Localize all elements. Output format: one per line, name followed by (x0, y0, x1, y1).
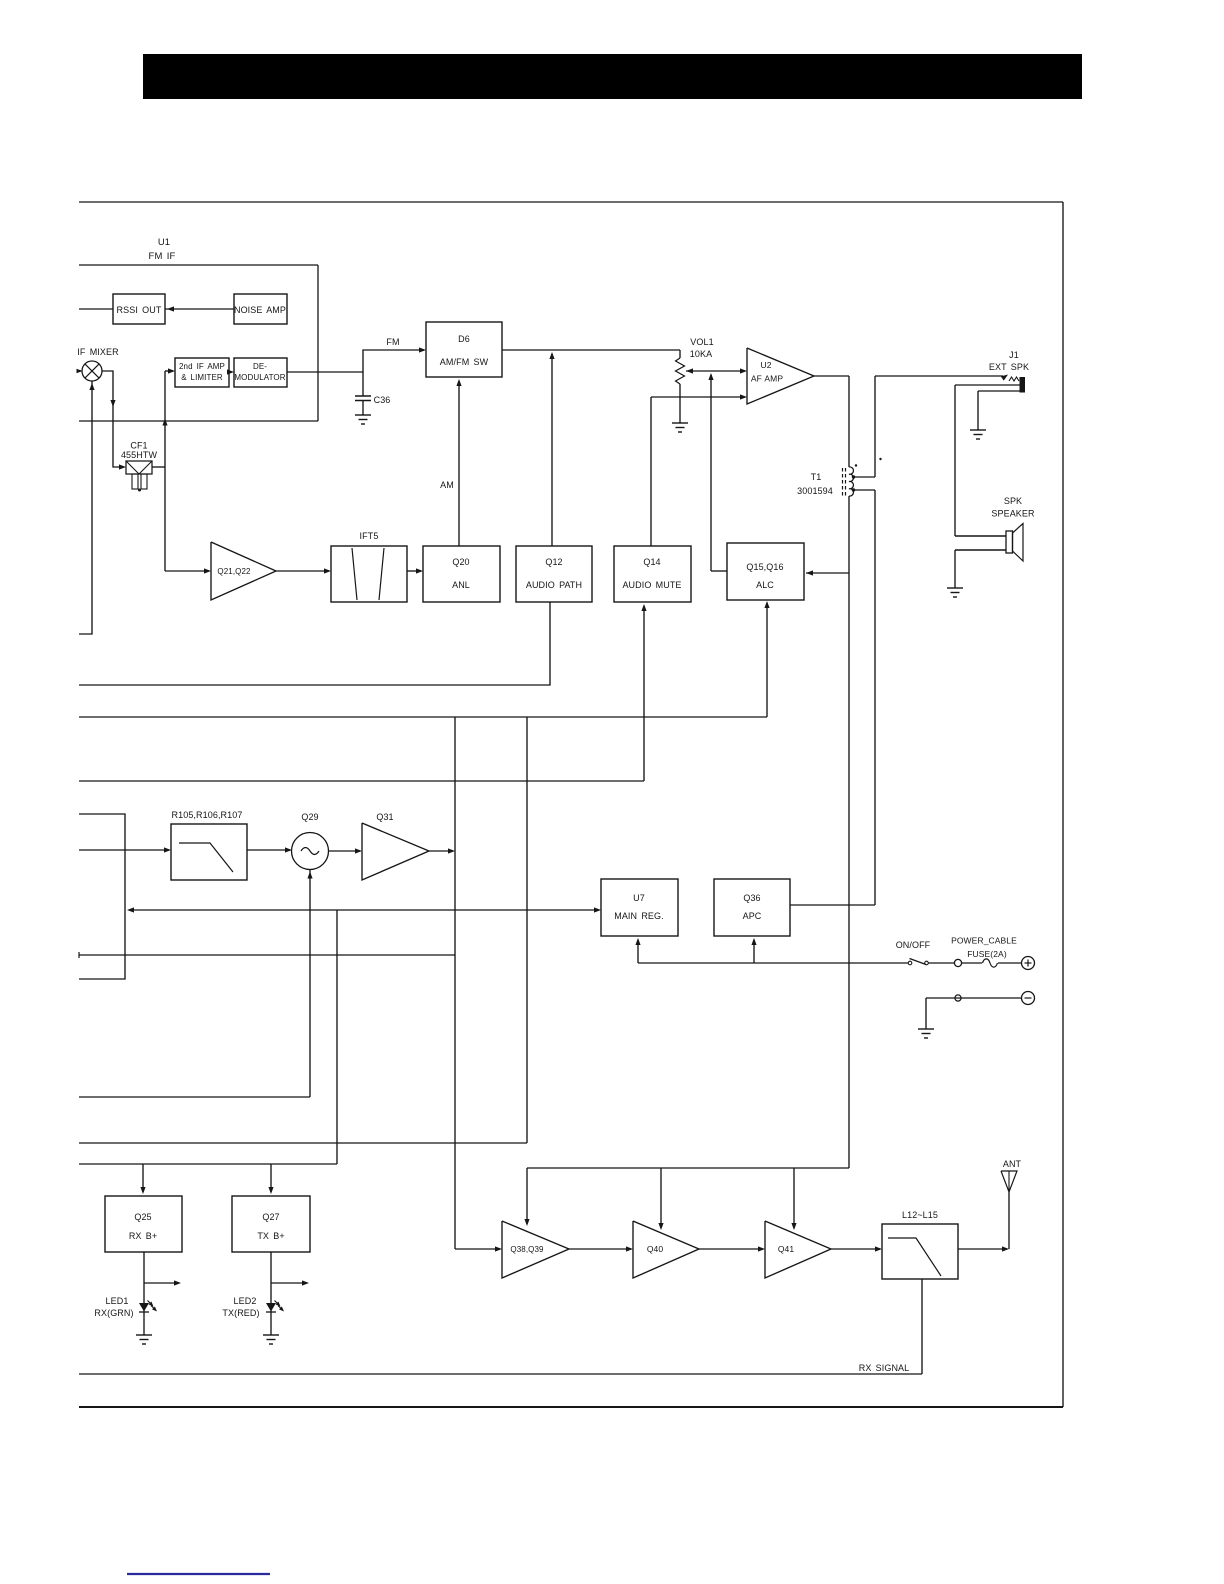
svg-text:U1: U1 (158, 237, 170, 248)
svg-text:SPEAKER: SPEAKER (991, 509, 1035, 519)
svg-text:U7: U7 (633, 893, 645, 903)
svg-text:Q31: Q31 (376, 812, 393, 822)
svg-text:AM/FM SW: AM/FM SW (440, 357, 489, 367)
svg-text:Q38,Q39: Q38,Q39 (510, 1245, 544, 1254)
svg-text:AM: AM (440, 480, 454, 490)
svg-text:RX SIGNAL: RX SIGNAL (859, 1363, 910, 1373)
svg-text:DE-: DE- (253, 362, 267, 371)
svg-text:Q36: Q36 (743, 893, 760, 903)
svg-text:RX(GRN): RX(GRN) (94, 1308, 133, 1318)
svg-text:Q12: Q12 (545, 557, 562, 567)
svg-text:FM IF: FM IF (149, 251, 176, 262)
svg-text:FUSE(2A): FUSE(2A) (967, 949, 1007, 959)
svg-text:455HTW: 455HTW (121, 450, 158, 460)
svg-text:MAIN REG.: MAIN REG. (614, 911, 664, 921)
svg-text:ANL: ANL (452, 580, 470, 590)
svg-text:Q27: Q27 (262, 1212, 279, 1222)
svg-text:ANT: ANT (1003, 1159, 1022, 1169)
svg-text:Q40: Q40 (647, 1244, 664, 1254)
svg-text:Q41: Q41 (778, 1244, 795, 1254)
svg-text:L12~L15: L12~L15 (902, 1210, 938, 1220)
svg-text:10KA: 10KA (690, 349, 712, 359)
svg-text:AUDIO PATH: AUDIO PATH (526, 580, 582, 590)
svg-text:RX B+: RX B+ (129, 1231, 157, 1241)
svg-text:TX(RED): TX(RED) (222, 1308, 259, 1318)
svg-text:Q15,Q16: Q15,Q16 (746, 562, 783, 572)
svg-text:TX B+: TX B+ (257, 1231, 284, 1241)
svg-text:RSSI OUT: RSSI OUT (117, 305, 162, 315)
svg-text:NOISE AMP: NOISE AMP (234, 305, 286, 315)
svg-text:D6: D6 (458, 334, 470, 344)
svg-text:VOL1: VOL1 (690, 337, 713, 347)
svg-text:Q25: Q25 (134, 1212, 151, 1222)
svg-text:3001594: 3001594 (797, 486, 833, 496)
svg-text:ON/OFF: ON/OFF (896, 940, 931, 950)
svg-text:J1: J1 (1009, 350, 1019, 360)
svg-text:Q29: Q29 (301, 812, 318, 822)
svg-text:C36: C36 (374, 395, 391, 405)
svg-text:LED1: LED1 (106, 1296, 129, 1306)
svg-text:IFT5: IFT5 (360, 531, 379, 541)
svg-text:Q21,Q22: Q21,Q22 (217, 567, 251, 576)
svg-text:AUDIO MUTE: AUDIO MUTE (622, 580, 681, 590)
svg-text:FM: FM (386, 337, 399, 347)
svg-text:MODULATOR: MODULATOR (234, 373, 285, 382)
svg-text:APC: APC (743, 911, 762, 921)
svg-text:EXT SPK: EXT SPK (989, 362, 1029, 372)
svg-text:CF1: CF1 (130, 441, 147, 451)
svg-text:AF AMP: AF AMP (751, 374, 784, 384)
svg-text:POWER_CABLE: POWER_CABLE (951, 936, 1017, 946)
svg-text:ALC: ALC (756, 580, 774, 590)
svg-text:IF MIXER: IF MIXER (77, 347, 119, 357)
svg-text:U2: U2 (760, 360, 771, 370)
svg-text:T1: T1 (811, 472, 822, 482)
svg-text:R105,R106,R107: R105,R106,R107 (172, 810, 243, 820)
svg-text:2nd IF AMP: 2nd IF AMP (179, 362, 225, 371)
svg-text:& LIMITER: & LIMITER (181, 373, 223, 382)
svg-text:Q14: Q14 (643, 557, 660, 567)
svg-text:LED2: LED2 (234, 1296, 257, 1306)
svg-text:SPK: SPK (1004, 496, 1022, 506)
svg-text:Q20: Q20 (452, 557, 469, 567)
